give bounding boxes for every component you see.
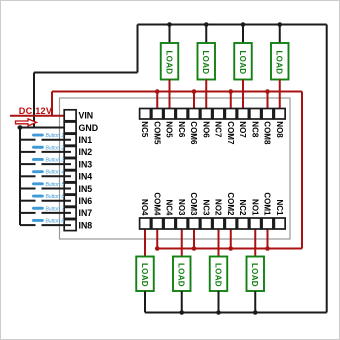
wire +12V to COM4 pin — [156, 224, 158, 249]
terminal NO6 box — [201, 109, 212, 120]
terminal NO1 label — [250, 199, 259, 216]
button B6 — [32, 194, 64, 200]
svg-text:NC3: NC3 — [201, 199, 210, 216]
terminal NO4 box — [140, 218, 151, 229]
terminal COM7 label — [226, 121, 235, 145]
load L7 box — [234, 43, 252, 80]
label DC 12V supply — [19, 106, 53, 116]
terminal NC4 label — [165, 199, 174, 216]
svg-text:COM4: COM4 — [152, 192, 161, 216]
terminal COM1 box — [262, 218, 273, 229]
svg-text:NO8: NO8 — [275, 121, 284, 138]
wire +12V to COM1 pin — [267, 224, 269, 249]
svg-text:LOAD: LOAD — [140, 263, 149, 287]
svg-text:NC4: NC4 — [165, 199, 174, 216]
wire button B2 right — [42, 151, 72, 153]
junction load L7 on GND rail — [241, 22, 246, 27]
load L2 box — [210, 257, 228, 292]
pin IN5 label — [79, 184, 93, 194]
wire GND bottom rail — [145, 312, 327, 314]
pin IN1 box — [64, 134, 76, 145]
junction load L3 on GND rail — [179, 310, 184, 315]
terminal NC8 box — [250, 109, 261, 120]
terminal NC5 label — [140, 121, 149, 138]
junction COM8 on +12V rail — [265, 89, 270, 94]
wire +12V riser — [51, 92, 53, 116]
terminal COM8 box — [262, 109, 273, 120]
svg-text:NC5: NC5 — [140, 121, 149, 138]
terminal NO3 label — [177, 199, 186, 216]
terminal NC7 box — [213, 109, 224, 120]
wire NO3 pin to load L3 — [181, 224, 183, 257]
wire NO1 pin to load L1 — [254, 224, 256, 257]
wire GND rail to module (horizontal) — [34, 72, 138, 74]
pin IN7 label — [79, 208, 93, 218]
svg-text:NO4: NO4 — [140, 199, 149, 216]
junction load L6 on GND rail — [204, 22, 209, 27]
button B7 — [32, 206, 64, 212]
svg-text:NO2: NO2 — [214, 199, 223, 216]
junction load L8 on GND rail — [277, 22, 282, 27]
button B5 — [32, 182, 64, 188]
terminal NO4 label — [140, 199, 149, 216]
svg-text:IN8: IN8 — [79, 220, 93, 230]
pin IN6 box — [64, 195, 76, 206]
wire button B1 right — [42, 139, 72, 141]
terminal COM6 label — [189, 121, 198, 145]
svg-text:COM8: COM8 — [263, 121, 272, 145]
junction COM7 on +12V rail — [228, 89, 233, 94]
svg-text:Button 4: Button 4 — [46, 170, 65, 176]
pin IN4 box — [64, 171, 76, 182]
wire GND rail to module (vertical) — [137, 25, 139, 73]
wire button B3 right — [42, 163, 72, 165]
wire load L6 to NO6 pin — [205, 80, 207, 115]
svg-text:NC8: NC8 — [250, 121, 259, 138]
pin IN8 label — [79, 220, 93, 230]
wire button B1 left — [20, 139, 36, 141]
pin IN2 label — [79, 147, 93, 157]
wire load L7 to NO7 pin — [242, 80, 244, 115]
load L8 box — [271, 43, 289, 80]
svg-text:GND: GND — [79, 123, 99, 133]
junction COM5 on +12V rail — [155, 89, 160, 94]
svg-text:COM1: COM1 — [263, 192, 272, 216]
terminal NC1 label — [275, 199, 284, 216]
button B3 — [32, 158, 64, 164]
wire button B7 left — [20, 212, 36, 214]
wire +12V right edge — [301, 92, 303, 249]
wire button B7 right — [42, 212, 72, 214]
terminal NC6 label — [177, 121, 186, 138]
terminal NO5 box — [164, 109, 175, 120]
wire +12V to COM6 pin — [193, 92, 195, 115]
svg-text:IN6: IN6 — [79, 196, 93, 206]
pin IN4 label — [79, 172, 93, 182]
wire +12V top rail — [52, 91, 302, 93]
pin IN7 box — [64, 207, 76, 218]
terminal NO1 box — [250, 218, 261, 229]
svg-text:COM6: COM6 — [189, 121, 198, 145]
wire button B5 right — [42, 188, 72, 190]
svg-text:NO3: NO3 — [177, 199, 186, 216]
svg-text:IN4: IN4 — [79, 172, 93, 182]
pin IN3 label — [79, 159, 93, 169]
wire load L2 to GND rail — [218, 291, 220, 313]
svg-text:IN1: IN1 — [79, 135, 93, 145]
wire load L7 to GND rail — [242, 25, 244, 44]
terminal NC7 label — [214, 121, 223, 138]
wire +12V to COM2 pin — [230, 224, 232, 249]
junction load L2 on GND rail — [216, 310, 221, 315]
terminal COM4 label — [152, 192, 161, 216]
wire +12V feed to VIN — [10, 115, 71, 117]
wire button B8 right — [42, 224, 72, 226]
junction COM4 on +12V rail — [155, 246, 160, 251]
wire button B6 right — [42, 200, 72, 202]
wire button B3 left — [20, 163, 36, 165]
svg-text:LOAD: LOAD — [238, 51, 247, 75]
pin IN5 box — [64, 183, 76, 194]
svg-text:VIN: VIN — [79, 111, 94, 121]
svg-text:NO7: NO7 — [238, 121, 247, 138]
svg-text:Button 8: Button 8 — [46, 219, 65, 225]
wire +12V to COM5 pin — [156, 92, 158, 115]
svg-text:IN3: IN3 — [79, 159, 93, 169]
svg-text:IN5: IN5 — [79, 184, 93, 194]
button B8 — [32, 219, 64, 225]
terminal NC2 box — [238, 218, 249, 229]
svg-text:COM5: COM5 — [152, 121, 161, 145]
wire button B8 left — [20, 224, 36, 226]
svg-text:NO5: NO5 — [165, 121, 174, 138]
junction GND-button bus — [18, 125, 23, 130]
pin GND box — [64, 122, 76, 133]
svg-text:DC 12V: DC 12V — [19, 106, 53, 116]
junction COM2 on +12V rail — [228, 246, 233, 251]
terminal NC2 label — [238, 199, 247, 216]
terminal NC8 label — [250, 121, 259, 138]
wire load L3 to GND rail — [181, 291, 183, 313]
svg-text:Button 3: Button 3 — [46, 158, 65, 164]
terminal NO2 box — [213, 218, 224, 229]
svg-text:Button 6: Button 6 — [46, 194, 65, 200]
junction COM3 on +12V rail — [192, 246, 197, 251]
button B4 — [32, 170, 64, 176]
terminal NO7 label — [238, 121, 247, 138]
svg-text:COM3: COM3 — [189, 192, 198, 216]
wire GND right edge — [326, 25, 328, 313]
svg-text:LOAD: LOAD — [201, 51, 210, 75]
terminal COM5 label — [152, 121, 161, 145]
pin IN1 label — [79, 135, 93, 145]
wire NO4 pin to load L4 — [144, 224, 146, 257]
relay module board outline — [60, 98, 291, 239]
svg-text:NC6: NC6 — [177, 121, 186, 138]
wire load L8 to NO8 pin — [279, 80, 281, 115]
wire button B4 left — [20, 175, 36, 177]
svg-text:IN7: IN7 — [79, 208, 93, 218]
wire button B2 left — [20, 151, 36, 153]
terminal COM8 label — [263, 121, 272, 145]
terminal NO5 label — [165, 121, 174, 138]
terminal NO8 label — [275, 121, 284, 138]
svg-text:COM7: COM7 — [226, 121, 235, 145]
button B1 — [32, 133, 64, 139]
pin IN8 box — [64, 220, 76, 231]
terminal NC3 label — [201, 199, 210, 216]
wire button bus — [19, 128, 21, 226]
wire load L4 to GND rail — [144, 291, 146, 313]
terminal NO8 box — [274, 109, 285, 120]
wire button B5 left — [20, 188, 36, 190]
wire GND top rail — [138, 24, 327, 26]
terminal NO3 box — [176, 218, 187, 229]
pin IN6 label — [79, 196, 93, 206]
load L3 box — [173, 257, 191, 292]
button B2 — [32, 145, 64, 151]
load L5 box — [161, 43, 179, 80]
svg-text:Button 7: Button 7 — [46, 206, 65, 212]
arrow supply direction — [16, 119, 37, 126]
wire +12V to COM3 pin — [193, 224, 195, 249]
svg-text:COM2: COM2 — [226, 192, 235, 216]
pin IN2 box — [64, 146, 76, 157]
pin VIN box — [64, 110, 76, 121]
terminal NO6 label — [201, 121, 210, 138]
wire GND drop to GND pin — [33, 73, 35, 128]
svg-text:IN2: IN2 — [79, 147, 93, 157]
load L1 box — [247, 257, 265, 292]
wire load L6 to GND rail — [205, 25, 207, 44]
pin IN3 box — [64, 159, 76, 170]
svg-text:Button 1: Button 1 — [46, 133, 65, 139]
svg-text:NC2: NC2 — [238, 199, 247, 216]
terminal COM3 box — [189, 218, 200, 229]
pin VIN label — [79, 111, 94, 121]
junction load L1 on GND rail — [253, 310, 258, 315]
svg-text:NO6: NO6 — [201, 121, 210, 138]
wire +12V to COM7 pin — [230, 92, 232, 115]
svg-text:LOAD: LOAD — [250, 263, 259, 287]
wire GND pin feed — [18, 127, 72, 129]
terminal COM3 label — [189, 192, 198, 216]
wire load L8 to GND rail — [279, 25, 281, 44]
terminal NC6 box — [176, 109, 187, 120]
terminal NC4 box — [164, 218, 175, 229]
terminal COM1 label — [263, 192, 272, 216]
terminal NC1 box — [274, 218, 285, 229]
terminal COM7 box — [225, 109, 236, 120]
terminal NC5 box — [140, 109, 151, 120]
svg-text:LOAD: LOAD — [275, 51, 284, 75]
terminal COM4 box — [152, 218, 163, 229]
wire +12V bottom rail — [157, 248, 302, 250]
wire load L5 to GND rail — [169, 25, 171, 44]
svg-text:NC1: NC1 — [275, 199, 284, 216]
svg-text:NC7: NC7 — [214, 121, 223, 138]
terminal NO2 label — [214, 199, 223, 216]
svg-text:NO1: NO1 — [250, 199, 259, 216]
wire load L1 to GND rail — [254, 291, 256, 313]
terminal COM5 box — [152, 109, 163, 120]
wire NO2 pin to load L2 — [218, 224, 220, 257]
terminal COM6 box — [189, 109, 200, 120]
wire button B6 left — [20, 200, 36, 202]
junction COM1 on +12V rail — [265, 246, 270, 251]
svg-text:Button 2: Button 2 — [46, 145, 65, 151]
junction COM6 on +12V rail — [192, 89, 197, 94]
terminal NC3 box — [201, 218, 212, 229]
svg-text:Button 5: Button 5 — [46, 182, 65, 188]
wire load L5 to NO5 pin — [169, 80, 171, 115]
pin GND label — [79, 123, 99, 133]
terminal COM2 label — [226, 192, 235, 216]
wire +12V to COM8 pin — [267, 92, 269, 115]
svg-text:LOAD: LOAD — [213, 263, 222, 287]
load L4 box — [136, 257, 154, 292]
load L6 box — [198, 43, 216, 80]
svg-text:LOAD: LOAD — [177, 263, 186, 287]
wire button B4 right — [42, 175, 72, 177]
svg-text:LOAD: LOAD — [164, 51, 173, 75]
terminal COM2 box — [225, 218, 236, 229]
terminal NO7 box — [238, 109, 249, 120]
junction load L5 on GND rail — [167, 22, 172, 27]
